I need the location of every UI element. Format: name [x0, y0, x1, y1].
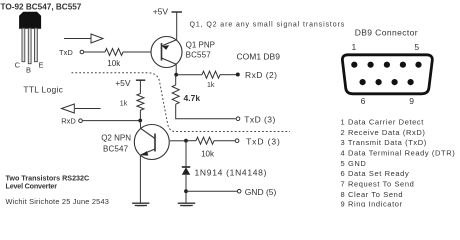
- svg-text:5: 5: [414, 42, 419, 52]
- svg-text:GND (5): GND (5): [245, 187, 277, 197]
- resistor R2 1k (to DB9 RxD pin 2): [202, 71, 220, 78]
- svg-text:1 Data Carrier Detect: 1 Data Carrier Detect: [341, 118, 425, 127]
- svg-text:10k: 10k: [107, 59, 121, 68]
- DB9 pin 3: [384, 62, 390, 68]
- wire Q2 emitter to ground: [139, 155, 141, 202]
- svg-text:BC547: BC547: [103, 144, 129, 153]
- svg-text:Q2 NPN: Q2 NPN: [101, 133, 131, 142]
- TO-92 leg E: [35, 28, 38, 62]
- wire node A to R3: [175, 75, 177, 85]
- node TxD (3) lower: [235, 139, 239, 143]
- svg-text:BC557: BC557: [186, 51, 212, 60]
- svg-text:6 Data Set Ready: 6 Data Set Ready: [341, 169, 410, 178]
- node RxD (2): [236, 73, 240, 77]
- svg-text:1N914 (1N4148): 1N914 (1N4148): [195, 167, 268, 177]
- svg-text:RxD: RxD: [61, 116, 76, 125]
- DB9 pin 5: [415, 62, 421, 68]
- wire R2 to RxD(2): [220, 74, 236, 76]
- svg-text:4.7k: 4.7k: [184, 93, 201, 103]
- node GND (5): [237, 189, 241, 193]
- DB9 pin 9: [408, 79, 414, 85]
- svg-text:Level Converter: Level Converter: [6, 181, 58, 190]
- DB9 pin 6: [360, 79, 366, 85]
- svg-text:E: E: [39, 60, 44, 69]
- TO-92 leg B: [28, 28, 31, 64]
- svg-text:6: 6: [361, 96, 366, 106]
- wire node A to R2: [176, 74, 202, 76]
- svg-text:3 Transmit Data (TxD): 3 Transmit Data (TxD): [341, 138, 427, 147]
- node A junction: [174, 73, 178, 77]
- TO-92 leg C: [22, 28, 25, 62]
- diode D1 1N914 cathode bar: [182, 166, 190, 168]
- wire node B to Q2 collector: [139, 121, 142, 129]
- svg-text:10k: 10k: [201, 150, 215, 159]
- svg-text:7 Request To Send: 7 Request To Send: [341, 180, 415, 189]
- svg-text:8 Clear To Send: 8 Clear To Send: [341, 190, 404, 199]
- svg-text:9: 9: [409, 96, 414, 106]
- wire R5 to TxD(3) lower: [214, 140, 235, 142]
- wire TxD to R1: [84, 51, 105, 53]
- node TxD (3) upper: [236, 117, 240, 121]
- svg-text:TxD (3): TxD (3): [246, 136, 281, 146]
- node B junction: [138, 119, 142, 123]
- resistor R1 10k (Q1 base): [105, 49, 123, 56]
- svg-text:RxD (2): RxD (2): [245, 70, 277, 80]
- DB9 pin 8: [392, 79, 398, 85]
- wire R4 to node B: [139, 110, 141, 121]
- wire RxD to node B: [82, 120, 140, 122]
- svg-text:4 Data Terminal Ready (DTR): 4 Data Terminal Ready (DTR): [341, 149, 456, 158]
- TTL buffer arrow TxD direction: [64, 34, 103, 43]
- svg-text:1k: 1k: [120, 101, 128, 108]
- svg-text:Q1 PNP: Q1 PNP: [186, 41, 215, 50]
- svg-text:Wichit Sirichote 25 June 2543: Wichit Sirichote 25 June 2543: [6, 197, 110, 206]
- svg-text:DB9 Connector: DB9 Connector: [355, 28, 418, 38]
- DB9 pin list: [341, 118, 456, 209]
- DB9 pin 1: [351, 62, 357, 68]
- DB9 connector J1 outline: [342, 55, 432, 94]
- diode D1 1N914 triangle: [182, 167, 190, 175]
- svg-text:+5V: +5V: [115, 78, 131, 88]
- ground at Q2 emitter: [132, 203, 149, 207]
- dashed boundary TTL side / RS232 side: [72, 73, 291, 132]
- resistor R4 1k (Q2 collector pull-up): [137, 94, 144, 111]
- DB9 pin 2: [368, 62, 374, 68]
- svg-text:TxD (3): TxD (3): [244, 115, 276, 125]
- svg-text:9 Ring Indicator: 9 Ring Indicator: [341, 199, 403, 207]
- svg-text:+5V: +5V: [153, 7, 169, 17]
- wire node C to diode D1: [185, 141, 187, 167]
- wire R1 to Q1 base: [123, 51, 151, 53]
- resistor R3 4.7k: [172, 85, 179, 104]
- DB9 pin 7: [376, 79, 382, 85]
- TTL buffer arrow RxD direction: [62, 104, 101, 113]
- svg-text:1: 1: [352, 42, 357, 52]
- svg-text:COM1 DB9: COM1 DB9: [237, 52, 281, 62]
- wire diode to node D: [185, 175, 187, 203]
- svg-text:B: B: [26, 65, 31, 74]
- resistor R5 10k (Q2 base): [186, 140, 196, 142]
- wire Q2 base to node C: [170, 140, 186, 142]
- svg-text:C: C: [15, 60, 21, 69]
- svg-text:5 GND: 5 GND: [341, 159, 367, 168]
- wire Q1 collector down to node A: [175, 64, 177, 75]
- TO-92 package body: [20, 12, 41, 28]
- svg-text:1k: 1k: [207, 82, 215, 89]
- svg-text:Q1, Q2 are any small signal tr: Q1, Q2 are any small signal transistors: [190, 21, 346, 28]
- node D junction: [184, 189, 188, 193]
- svg-text:TTL Logic: TTL Logic: [23, 85, 63, 95]
- node C junction: [184, 139, 188, 143]
- transistor Q2: [134, 125, 169, 160]
- ground under diode: [178, 203, 196, 207]
- svg-text:TxD: TxD: [59, 48, 73, 57]
- wire R3 to TxD(3) upper: [176, 104, 236, 119]
- transistor Q1: [151, 37, 182, 68]
- svg-text:2 Receive Data (RxD): 2 Receive Data (RxD): [341, 128, 426, 137]
- DB9 pin 4: [400, 62, 406, 68]
- wire +5V to R4: [139, 80, 141, 93]
- svg-text:TO-92 BC547, BC557: TO-92 BC547, BC557: [1, 3, 82, 12]
- wire +5V to Q1 emitter: [176, 12, 178, 40]
- wire node D to GND (5): [186, 190, 237, 192]
